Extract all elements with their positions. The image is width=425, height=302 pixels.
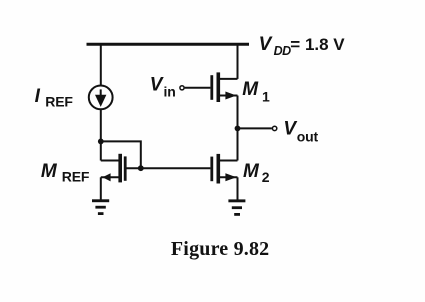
svg-text:V: V <box>259 34 273 55</box>
label MREF <box>41 161 90 184</box>
terminal Vout <box>272 126 276 130</box>
wire: M1 source to Vout node <box>237 96 239 129</box>
svg-text:in: in <box>164 84 176 100</box>
wire: node to MREF drain lead <box>100 141 102 160</box>
svg-text:DD: DD <box>274 44 292 58</box>
svg-text:V: V <box>283 119 297 140</box>
label M2 <box>243 161 270 185</box>
wire: MREF source to ground <box>100 177 102 200</box>
wire: gate bus MREF gate to M2 gate <box>125 167 210 169</box>
label Vin <box>150 74 176 99</box>
svg-text:M: M <box>242 79 259 100</box>
svg-text:M: M <box>243 161 260 182</box>
wire: rail to M1 drain <box>237 44 239 79</box>
wire: Vout node to terminal <box>238 127 272 129</box>
svg-text:REF: REF <box>62 168 90 184</box>
label M1 <box>242 79 270 104</box>
wire: IREF to node <box>100 109 102 141</box>
label VDD = 1.8 V <box>259 34 346 58</box>
wire: Vin terminal to M1 gate <box>185 87 211 89</box>
svg-text:2: 2 <box>262 169 270 185</box>
ground (M2) <box>228 199 245 215</box>
terminal Vin <box>180 86 184 90</box>
VDD power rail <box>87 43 250 46</box>
transistor MREF (mirrored NMOS) <box>101 154 127 183</box>
current source IREF <box>89 86 113 110</box>
svg-text:M: M <box>41 161 58 182</box>
label Vout <box>283 119 318 145</box>
svg-text:= 1.8 V: = 1.8 V <box>290 35 345 54</box>
node: gate junction <box>138 165 144 171</box>
transistor M2 (NMOS current source) <box>210 154 237 184</box>
svg-text:REF: REF <box>45 94 73 110</box>
wire: rail to IREF top <box>100 44 102 87</box>
wire: Vout node to M2 drain <box>237 128 239 160</box>
node: MREF drain / diode connection <box>98 139 104 145</box>
svg-text:1: 1 <box>262 89 270 105</box>
svg-text:Figure 9.82: Figure 9.82 <box>171 238 270 260</box>
transistor M1 (NMOS source follower) <box>210 72 237 102</box>
ground (MREF) <box>92 199 109 215</box>
wire: M2 source to ground <box>237 177 239 200</box>
svg-text:I: I <box>35 86 41 107</box>
svg-text:V: V <box>150 74 164 95</box>
wire: diode connection (node to gate junction) <box>101 141 141 168</box>
node Vout <box>235 125 241 131</box>
label IREF <box>35 86 74 110</box>
svg-text:out: out <box>297 128 319 144</box>
